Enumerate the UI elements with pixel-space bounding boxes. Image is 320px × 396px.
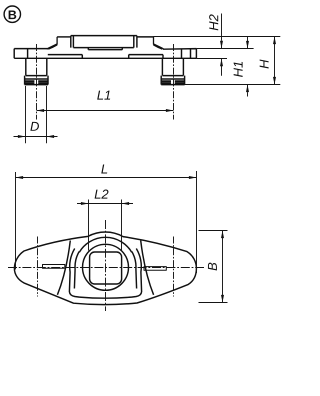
label H1 bbox=[234, 62, 243, 77]
boss left ramp bbox=[47, 37, 57, 49]
rim edge verticals right bbox=[134, 36, 137, 48]
outline bbox=[14, 232, 196, 305]
view label letter B bbox=[9, 11, 17, 20]
web edge right bbox=[141, 241, 154, 295]
dim H1 arrows bbox=[246, 41, 249, 92]
dim H arrows bbox=[273, 37, 276, 85]
label H bbox=[260, 59, 269, 68]
centerlines plan bbox=[8, 220, 204, 311]
left stud collar bbox=[25, 76, 48, 85]
boss top left bbox=[57, 36, 71, 38]
dim L2 line bbox=[77, 203, 133, 205]
dim H line bbox=[274, 37, 276, 85]
dim D ext lines bbox=[26, 86, 47, 143]
dim L arrows bbox=[16, 176, 197, 179]
view label circle B bbox=[4, 6, 20, 22]
dim H2 line bbox=[221, 14, 223, 76]
dim H1 line bbox=[247, 37, 249, 97]
left stud centerline bbox=[36, 44, 38, 120]
dim L2 arrows bbox=[81, 202, 129, 205]
left lug centerline bbox=[37, 237, 39, 297]
square hole bbox=[90, 252, 122, 284]
rim edge verticals left bbox=[71, 36, 74, 48]
dim D arrows bbox=[18, 135, 54, 138]
right stud centerline bbox=[173, 44, 175, 120]
ext line plate bottom bbox=[196, 58, 227, 60]
right stud collar bbox=[161, 76, 184, 85]
slot left bbox=[43, 265, 65, 269]
dim L1 line bbox=[37, 110, 174, 112]
dim B line bbox=[222, 231, 224, 303]
left stud body bbox=[26, 58, 47, 75]
dimensions plan bbox=[16, 171, 228, 303]
label H2 bbox=[209, 14, 218, 30]
plate outline bbox=[14, 49, 196, 59]
dome sphere circle bbox=[83, 244, 129, 290]
ext line stud bottom bbox=[185, 84, 281, 86]
plate recess line right bbox=[129, 55, 163, 59]
plate edge line left bbox=[27, 49, 29, 59]
bell2 side right bbox=[132, 252, 137, 289]
ext line plate top bbox=[196, 48, 253, 50]
left stud ring bands bbox=[25, 80, 48, 82]
label L1 bbox=[97, 91, 110, 100]
dim B arrows bbox=[221, 231, 224, 303]
bell2 top arc bbox=[79, 237, 131, 252]
centerlines elevation bbox=[37, 44, 174, 120]
plate recess line left bbox=[48, 55, 83, 59]
dim L1 arrows bbox=[37, 109, 174, 112]
right stud ring bands bbox=[162, 80, 185, 82]
dim L ext lines bbox=[16, 171, 197, 273]
label D bbox=[30, 122, 39, 131]
label L bbox=[101, 165, 107, 174]
rim inner bottom line bbox=[73, 47, 133, 49]
horizontal centerline bbox=[8, 267, 204, 269]
right lug centerline bbox=[173, 237, 175, 297]
slot right bbox=[144, 267, 166, 271]
extension + dimension lines elevation bbox=[14, 14, 281, 144]
square hole edge stubs bbox=[88, 48, 122, 50]
dim D line bbox=[14, 136, 58, 138]
right stud body bbox=[162, 58, 183, 75]
web edge left bbox=[57, 241, 70, 295]
dim L line bbox=[16, 177, 197, 179]
label B bbox=[208, 263, 217, 271]
bell1 side left + foot hook bbox=[69, 249, 79, 298]
plate edge line right bbox=[182, 49, 191, 59]
skirt bottom arc bbox=[80, 297, 132, 298]
ext line boss top bbox=[154, 36, 281, 38]
bell2 side left bbox=[74, 252, 79, 289]
vertical centerline bbox=[105, 220, 107, 311]
rim top bbox=[71, 35, 137, 37]
dim L2 ext lines bbox=[89, 200, 122, 251]
dim H2 arrows bbox=[220, 41, 223, 66]
bell1 side right + foot hook bbox=[132, 249, 142, 298]
label L2 bbox=[95, 190, 109, 199]
boss right ramp bbox=[154, 37, 164, 49]
boss top right bbox=[137, 36, 154, 38]
dim B ext lines bbox=[199, 231, 228, 303]
